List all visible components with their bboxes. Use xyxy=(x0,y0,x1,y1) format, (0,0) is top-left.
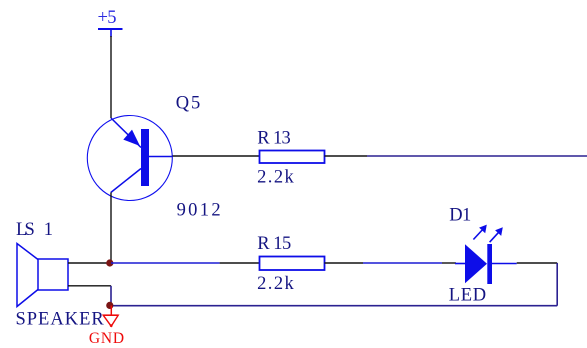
resistor R13 xyxy=(260,151,325,164)
svg-text:Q5: Q5 xyxy=(176,94,200,114)
svg-text:R 13: R 13 xyxy=(257,129,291,149)
svg-text:LED: LED xyxy=(449,285,486,305)
node B junction dot xyxy=(106,302,113,309)
svg-text:GND: GND xyxy=(89,330,124,347)
resistor R15 xyxy=(260,257,325,271)
transistor Q5 xyxy=(87,116,172,201)
svg-text:R 15: R 15 xyxy=(257,234,291,254)
wire R15 to LED (blue segment) xyxy=(363,262,442,264)
LED D1 xyxy=(455,225,517,284)
svg-text:+5: +5 xyxy=(98,8,117,28)
wire bottom return xyxy=(111,305,557,307)
wire from +5 to Q5 emitter xyxy=(110,36,112,118)
power +5 symbol xyxy=(98,8,123,37)
wire node A to R15 (black segment) xyxy=(220,262,260,264)
wire R13 to right edge (dark blue segment) xyxy=(367,155,587,157)
svg-text:D1: D1 xyxy=(449,205,471,225)
wire R15 to LED (black segment) xyxy=(325,262,364,264)
wire down to node B xyxy=(110,286,112,306)
svg-text:2.2k: 2.2k xyxy=(257,274,294,294)
speaker LS1 xyxy=(17,244,68,307)
wire right vertical xyxy=(556,263,558,306)
svg-text:LS1: LS1 xyxy=(16,220,53,240)
svg-text:SPEAKER: SPEAKER xyxy=(16,310,105,330)
wire speaker bottom terminal xyxy=(68,285,111,287)
wire Q5 collector down to node xyxy=(110,193,112,264)
node A junction dot xyxy=(106,259,113,266)
wire R13 right (black segment) xyxy=(325,155,368,157)
wire into LED anode (black segment) xyxy=(442,262,456,264)
ground symbol xyxy=(103,315,118,327)
wire speaker top terminal to node A xyxy=(68,262,111,264)
wire node A to R15 (blue segment) xyxy=(111,262,220,264)
wire Q5 base to R13 xyxy=(173,155,261,157)
ground stub wire xyxy=(110,306,112,316)
svg-text:2.2k: 2.2k xyxy=(257,168,294,188)
wire LED cathode right (black segment) xyxy=(517,262,558,264)
